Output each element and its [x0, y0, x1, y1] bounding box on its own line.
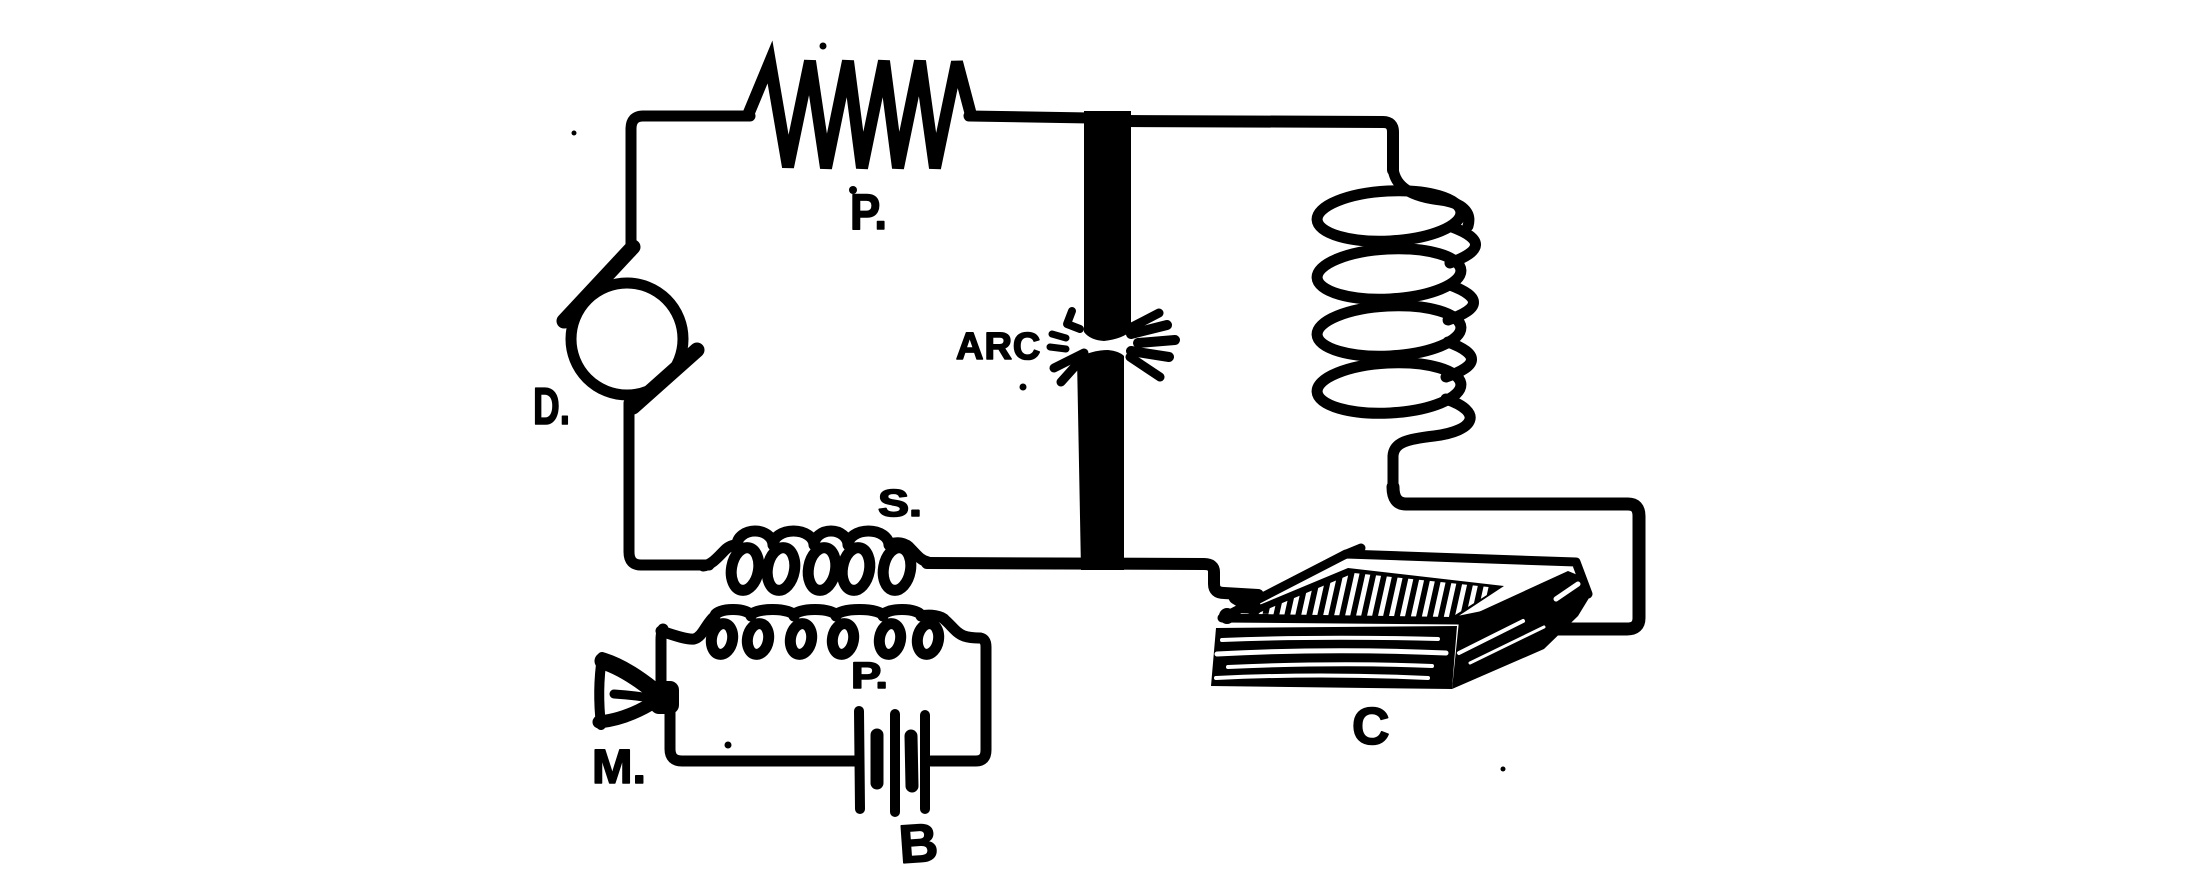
label M. [592, 741, 646, 794]
ink speck [1501, 767, 1506, 772]
dynamo D (circle with brush strokes) [564, 247, 697, 407]
wire: left vertical (bottom of dynamo) down to bottom rail [629, 403, 709, 565]
capacitor C: glass top sheet (white face) [1222, 548, 1588, 620]
wire: top rail from resistor to arc electrode [969, 116, 1090, 118]
ink speck [725, 742, 732, 749]
label B [897, 812, 940, 875]
wire: top rail from arc to helix corner [1125, 121, 1393, 170]
label D. [533, 378, 570, 436]
svg-text:C: C [1352, 698, 1390, 756]
label ARC [956, 326, 1041, 368]
microphone M (transmitter horn) [599, 657, 679, 725]
svg-text:D.: D. [533, 378, 570, 436]
inductor S. (secondary winding in bottom rail) [703, 531, 928, 593]
wire: left vertical (top) and top rail to resistor [631, 116, 750, 252]
label P. (primary) [851, 655, 888, 696]
label C [1352, 698, 1390, 756]
svg-text:S.: S. [878, 483, 922, 525]
svg-text:B: B [897, 812, 940, 875]
ink speck [572, 131, 577, 136]
capacitor C: hatched tinfoil plate [1219, 568, 1504, 624]
capacitor C: right side face [1452, 571, 1589, 689]
wire: bottom rail from S to capacitor lead (with step down) [927, 563, 1258, 595]
wire: from helix bottom to capacitor right lead [1393, 487, 1639, 629]
battery B [859, 711, 925, 812]
inductor: helix coil (right) [1316, 168, 1476, 490]
label P. for resistor [849, 184, 887, 240]
label S. [878, 483, 922, 525]
arc electrode: lower carbon bar [1077, 350, 1124, 570]
svg-text:P.: P. [851, 655, 888, 696]
wire: battery right riser to primary coil [931, 638, 986, 761]
arc electrode: upper carbon bar [1084, 111, 1131, 341]
arc spark rays [1050, 311, 1175, 382]
wire: left side of microphone loop [661, 629, 856, 761]
ink speck [820, 43, 827, 50]
ink speck [1020, 384, 1027, 391]
resistor P. (zig-zag rheostat) [748, 61, 971, 168]
svg-text:ARC: ARC [956, 326, 1041, 368]
capacitor C: front stacked-plates face [1211, 626, 1457, 689]
inductor P. (primary of induction coil) [661, 610, 980, 657]
svg-text:M.: M. [592, 741, 646, 794]
